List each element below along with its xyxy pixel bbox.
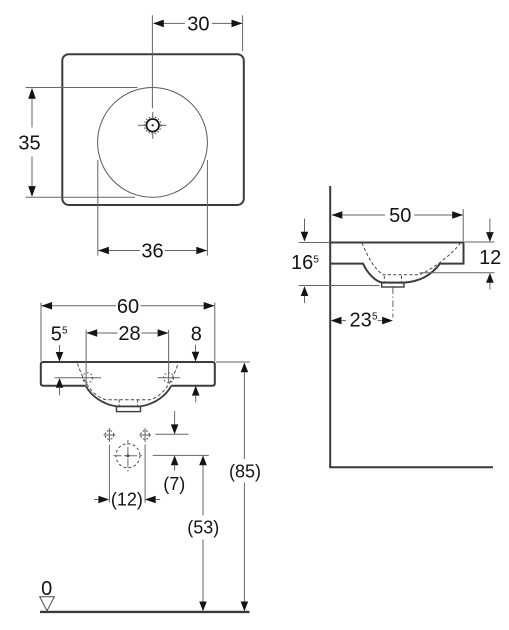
faucet hole [138,112,166,139]
dim (7) [153,411,209,494]
dim 5.5 [51,324,68,396]
svg-text:12: 12 [479,247,501,269]
svg-text:23: 23 [350,310,372,332]
svg-text:16: 16 [291,252,313,274]
dim (85) [216,362,261,611]
svg-text:28: 28 [118,323,140,345]
top view bowl circle [98,87,208,197]
dim 30 [153,14,243,52]
front bowl hidden contour (dashed) [78,364,179,400]
svg-text:5: 5 [62,326,68,337]
svg-text:30: 30 [187,14,209,36]
svg-text:(53): (53) [187,518,219,538]
floor line [40,611,250,613]
side drain dashed verticals [384,276,401,282]
dim 50 [332,205,464,241]
svg-text:36: 36 [141,241,163,263]
trap centerline [392,288,394,318]
dim 8 [191,324,202,403]
svg-text:5: 5 [313,255,319,266]
svg-text:(12): (12) [111,489,143,509]
wall line [329,186,331,467]
dim (12) [94,489,160,509]
right supply connection [139,428,151,503]
dim (53) [187,455,219,611]
svg-text:5: 5 [372,312,378,323]
svg-text:35: 35 [18,133,40,155]
svg-text:(85): (85) [229,461,261,481]
dim 60 [41,296,215,361]
left fixing hole [55,373,101,383]
side drain trap [382,283,404,288]
drain connection symbol [114,440,144,472]
svg-text:(7): (7) [163,474,185,494]
svg-text:8: 8 [191,324,202,346]
side slab with bowl [330,243,463,283]
dim 36 [98,160,208,263]
front slab outline [41,362,215,386]
dim 12 [420,219,502,290]
right fixing hole [158,373,181,383]
front drain hole dashed verticals [119,400,138,407]
centerline from dim 30 to faucet [151,15,153,108]
side floor line [329,466,493,468]
dim 28 [86,323,169,385]
svg-text:60: 60 [117,296,139,318]
side bowl hidden contour (dashed) [362,243,460,275]
svg-text:5: 5 [51,324,62,346]
dim 35 [18,88,137,198]
datum zero symbol [40,578,55,611]
dim 23.5 [331,310,393,332]
top view basin outline [62,54,244,205]
dim 16.5 [291,219,380,304]
front drain trap [117,406,141,411]
svg-text:50: 50 [389,205,411,227]
left supply connection [104,428,116,503]
front bowl outer curve [86,386,171,407]
